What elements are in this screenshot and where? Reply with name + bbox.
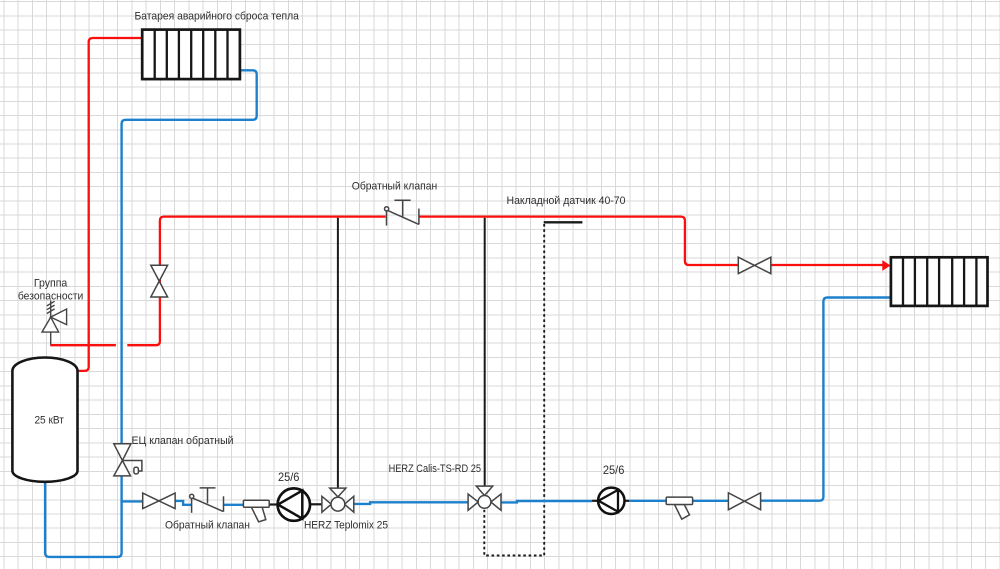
wire: red main supply line to right radiator (gap at check valve) xyxy=(419,217,883,265)
svg-text:Батарея аварийного сброса тепл: Батарея аварийного сброса тепла xyxy=(135,11,300,23)
wire: black stub left of pump2 xyxy=(592,500,599,502)
wire: black connector pump1-teplomix xyxy=(310,503,322,505)
wire: red supply boiler to emergency radiator xyxy=(78,38,143,371)
wire: black connector gun1-pump1 xyxy=(269,503,278,505)
radiator (right heating circuit) xyxy=(891,257,988,306)
valve B1 on blue return (bowtie) xyxy=(143,493,175,509)
check valve (Обратный клапан, top red line) xyxy=(385,200,419,225)
svg-text:безопасности: безопасности xyxy=(18,291,84,303)
pump P2 25/6 xyxy=(598,488,624,514)
sensor bar (Накладной датчик) xyxy=(544,221,583,223)
safety group valve xyxy=(42,301,67,345)
svg-text:Накладной датчик 40-70: Накладной датчик 40-70 xyxy=(507,195,626,207)
three-way valve HERZ Teplomix 25 xyxy=(322,488,354,512)
boiler 25 kW xyxy=(12,358,77,482)
valve B2 on blue return (bowtie) xyxy=(728,493,760,510)
red arrowhead into right radiator xyxy=(882,260,890,271)
check valve EЦ (vertical, on blue riser) xyxy=(114,444,142,476)
wire: blue main return line segments xyxy=(122,298,891,505)
svg-text:25 кВт: 25 кВт xyxy=(34,414,64,426)
drain cock symbol #2 xyxy=(666,497,692,519)
pump P1 25/6 xyxy=(278,488,310,520)
wire: blue return from emergency radiator down left riser xyxy=(122,70,257,502)
wire: blue boiler return bottom loop xyxy=(45,481,122,557)
radiator (emergency heat dump) xyxy=(142,30,240,80)
svg-text:Обратный клапан: Обратный клапан xyxy=(352,180,437,192)
three-way valve HERZ Calis-TS-RD 25 xyxy=(468,486,501,510)
svg-text:Группа: Группа xyxy=(34,278,68,290)
valve V1 on red riser (vertical bowtie) xyxy=(151,265,168,297)
svg-text:25/6: 25/6 xyxy=(278,470,300,484)
wire: black stub right of pump2 xyxy=(624,500,629,502)
svg-text:HERZ Teplomix 25: HERZ Teplomix 25 xyxy=(304,520,388,532)
svg-text:Обратный клапан: Обратный клапан xyxy=(165,519,250,531)
valve B3 on red line (bowtie) xyxy=(738,257,771,273)
wire: red branch from safety group to riser (gap at blue crossing) xyxy=(50,217,385,346)
svg-text:25/6: 25/6 xyxy=(603,463,625,477)
control stem teplomix valve xyxy=(337,218,339,488)
control stem calis valve xyxy=(484,218,486,486)
check valve (Обратный клапан, bottom blue line) xyxy=(190,488,224,513)
drain cock symbol #1 xyxy=(243,500,269,522)
dashed sensor capillary line xyxy=(484,224,544,556)
svg-text:HERZ Calis-TS-RD 25: HERZ Calis-TS-RD 25 xyxy=(389,463,481,475)
svg-text:ЕЦ клапан обратный: ЕЦ клапан обратный xyxy=(132,435,234,447)
